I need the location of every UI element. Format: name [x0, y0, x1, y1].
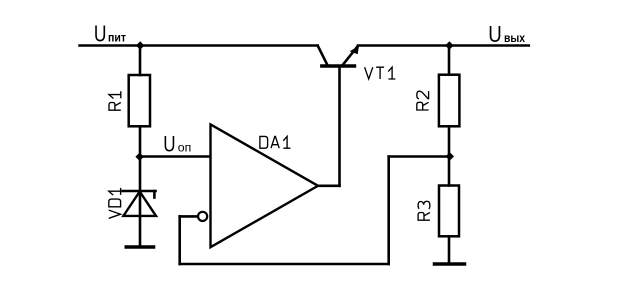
svg-text:вых: вых [504, 31, 525, 45]
svg-text:оп: оп [178, 140, 192, 154]
svg-text:U: U [488, 21, 502, 47]
svg-text:U: U [163, 131, 175, 156]
svg-text:пит: пит [108, 31, 126, 45]
svg-text:U: U [94, 21, 107, 47]
